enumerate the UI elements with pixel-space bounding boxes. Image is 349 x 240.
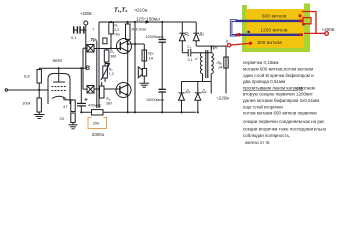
svg-text:В: В bbox=[86, 65, 91, 72]
svg-text:п210а: п210а bbox=[135, 8, 148, 13]
svg-text:R₅: R₅ bbox=[109, 68, 114, 72]
svg-text:380: 380 bbox=[106, 102, 112, 106]
svg-text:470мкф: 470мкф bbox=[88, 104, 101, 108]
svg-text:вторую секцию первички 1200вит: вторую секцию первички 1200вит bbox=[243, 92, 313, 97]
svg-text:С₅: С₅ bbox=[187, 45, 192, 49]
svg-text:6,8: 6,8 bbox=[24, 74, 30, 79]
svg-text:6н5п: 6н5п bbox=[53, 58, 63, 63]
svg-text:0,1: 0,1 bbox=[188, 58, 193, 62]
svg-text:Тр₁: Тр₁ bbox=[91, 37, 98, 42]
svg-text:125÷150мА: 125÷150мА bbox=[136, 16, 160, 21]
svg-text:Пр₂: Пр₂ bbox=[148, 52, 155, 56]
svg-text:потом мотаем 600 витков перв: потом мотаем 600 витков первички bbox=[243, 111, 317, 116]
svg-text:Т: Т bbox=[92, 28, 94, 32]
svg-text:II: II bbox=[195, 56, 198, 61]
svg-text:Д₃: Д₃ bbox=[185, 88, 191, 93]
svg-text:первичка 0,15мм: первичка 0,15мм bbox=[243, 60, 278, 65]
svg-text:10000мкф: 10000мкф bbox=[146, 98, 164, 102]
svg-text:R₁: R₁ bbox=[114, 24, 119, 28]
svg-text:один слой вторички бифиляром и: один слой вторички бифиляром и bbox=[243, 72, 314, 78]
svg-text:~220в: ~220в bbox=[216, 95, 229, 100]
svg-text:10000мкф: 10000мкф bbox=[146, 35, 164, 39]
svg-text:+200в: +200в bbox=[80, 11, 92, 16]
svg-text:Д₂: Д₂ bbox=[199, 31, 205, 36]
svg-text:200: 200 bbox=[93, 120, 100, 125]
svg-text:секции вторички тоже последова: секции вторички тоже последовательно bbox=[243, 126, 327, 131]
svg-text:1А: 1А bbox=[149, 57, 154, 61]
svg-text:соблюдая полярность,: соблюдая полярность, bbox=[243, 133, 290, 138]
svg-text:R₂0,5ом: R₂0,5ом bbox=[132, 27, 147, 32]
svg-text:I: I bbox=[214, 56, 216, 61]
svg-text:еще слой вторички: еще слой вторички bbox=[243, 103, 283, 109]
svg-text:мотаем 600 витков,потом мота: мотаем 600 витков,потом мотаем bbox=[243, 67, 313, 72]
svg-text:600 витков: 600 витков bbox=[258, 40, 283, 45]
svg-text:1А: 1А bbox=[218, 66, 223, 70]
svg-text:1,2: 1,2 bbox=[109, 72, 114, 76]
svg-text:+200в: +200в bbox=[322, 27, 335, 32]
svg-text:секции первички соединяем-как: секции первички соединяем-как на рис bbox=[243, 119, 325, 124]
svg-text:0,1: 0,1 bbox=[71, 35, 77, 40]
svg-text:железо от тв: железо от тв bbox=[245, 140, 270, 145]
svg-text:380: 380 bbox=[110, 55, 116, 59]
svg-text:Пр₁: Пр₁ bbox=[217, 61, 224, 65]
svg-text:Д₁: Д₁ bbox=[184, 31, 190, 36]
svg-text:Т₁,Т₂: Т₁,Т₂ bbox=[114, 8, 128, 14]
svg-text:47: 47 bbox=[63, 104, 68, 109]
svg-text:Д₄: Д₄ bbox=[201, 88, 207, 93]
svg-text:далее мотаем бифиляром 2х0,51м: далее мотаем бифиляром 2х0,51мм bbox=[243, 98, 319, 103]
svg-text:100к: 100к bbox=[22, 101, 31, 106]
svg-text:20: 20 bbox=[60, 116, 65, 121]
svg-text:Тр₂: Тр₂ bbox=[211, 45, 218, 50]
svg-text:R₃: R₃ bbox=[110, 50, 115, 54]
svg-text:и мотаем: и мотаем bbox=[296, 85, 315, 90]
svg-text:1200 витков: 1200 витков bbox=[261, 27, 289, 32]
svg-text:два провода 0,51мм: два провода 0,51мм bbox=[243, 79, 285, 84]
svg-text:2,2: 2,2 bbox=[114, 28, 119, 32]
svg-text:2000u: 2000u bbox=[92, 132, 105, 137]
svg-text:R₄: R₄ bbox=[106, 97, 111, 101]
svg-text:Ом: Ом bbox=[114, 33, 120, 37]
svg-text:600 витков: 600 витков bbox=[262, 13, 287, 18]
